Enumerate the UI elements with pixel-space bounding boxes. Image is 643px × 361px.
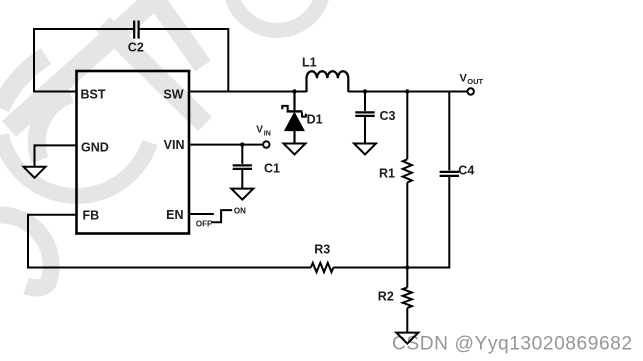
IC U1 body [77, 71, 190, 234]
node C3 junction [363, 89, 367, 93]
terminal VOUT circle [468, 88, 474, 94]
svg-text:R2: R2 [378, 289, 394, 303]
svg-text:R1: R1 [379, 167, 395, 181]
ground below C1 [231, 189, 253, 200]
svg-text:VIN: VIN [164, 138, 185, 152]
node R1 junction [405, 89, 409, 93]
switch EN on/off [196, 206, 246, 228]
svg-text:L1: L1 [302, 56, 317, 70]
svg-text:OUT: OUT [467, 77, 483, 86]
wire BST loop left vertical [34, 29, 133, 93]
wire R3 to junction and C4 [333, 267, 449, 269]
wire BST stub [34, 91, 77, 93]
diode D1 schottky [282, 91, 322, 144]
watermark top-right arc [232, 0, 322, 30]
node FB junction [405, 265, 409, 269]
node SW-D1 junction [292, 89, 296, 93]
svg-text:D1: D1 [307, 113, 323, 127]
terminal VIN circle [263, 141, 269, 147]
node VIN label [256, 124, 271, 137]
wire VIN pin [189, 144, 263, 146]
svg-text:R3: R3 [314, 242, 330, 256]
svg-text:IN: IN [264, 130, 271, 137]
svg-text:C3: C3 [380, 109, 396, 123]
node VOUT label [460, 73, 484, 87]
watermark gray band NW-SE [103, 24, 205, 124]
capacitor C3 [355, 91, 395, 144]
svg-text:C4: C4 [458, 163, 474, 177]
resistor R1 [379, 91, 412, 268]
inductor L1 [302, 56, 348, 93]
wire FB to R3 [28, 215, 311, 268]
svg-text:EN: EN [166, 208, 183, 222]
capacitor C2 [128, 21, 144, 55]
svg-text:V: V [460, 73, 468, 85]
ground below C3 [354, 144, 376, 155]
watermark corner arc upper-left [0, 56, 46, 108]
wire L1 to VOUT rail [348, 91, 467, 93]
svg-text:C1: C1 [264, 162, 280, 176]
svg-text:FB: FB [83, 208, 100, 222]
svg-text:CSDN @Yyq13020869682: CSDN @Yyq13020869682 [392, 334, 633, 355]
watermark arc letter S middle [1, 135, 150, 196]
svg-text:OFF: OFF [196, 220, 212, 229]
resistor R3 [311, 242, 334, 272]
wire top right segment [140, 29, 229, 91]
ground below GND pin [24, 167, 46, 178]
watermark gray band NE-SW [9, 0, 162, 129]
capacitor C1 [233, 145, 280, 189]
ground below D1 [284, 144, 306, 155]
svg-text:BST: BST [81, 87, 106, 101]
resistor R2 [378, 268, 412, 333]
ground below R2 [396, 333, 418, 344]
capacitor C4 [440, 91, 475, 269]
svg-text:V: V [256, 124, 263, 135]
svg-text:C2: C2 [128, 41, 144, 55]
watermark bottom hook [0, 215, 51, 288]
watermark gray band top-right stub [152, 0, 203, 66]
svg-text:SW: SW [163, 87, 183, 101]
wire GND pin [35, 145, 77, 166]
svg-text:ON: ON [234, 206, 246, 215]
watermark arc letter upper-left [37, 94, 71, 160]
svg-text:GND: GND [81, 140, 109, 154]
node VIN-C1 junction [240, 142, 244, 146]
wire SW to L1 [189, 91, 307, 93]
wire EN stub [189, 213, 214, 215]
